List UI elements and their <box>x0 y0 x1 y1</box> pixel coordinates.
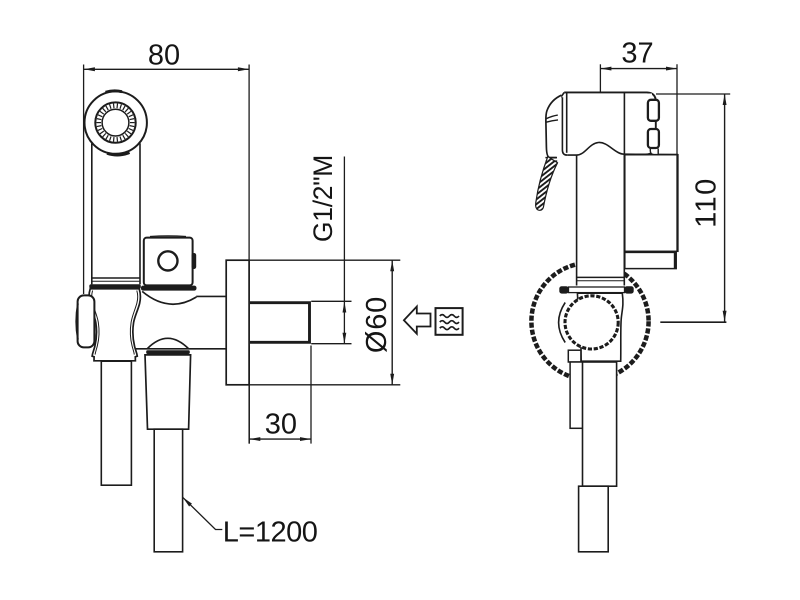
dim D60 extension line top <box>250 259 400 261</box>
handle joint ring line 2 <box>92 280 140 282</box>
handle tube front left edge <box>91 144 93 285</box>
holder bracket top edge highlight <box>150 235 186 238</box>
handle joint ring line 1 <box>92 277 140 279</box>
holder bracket hole <box>158 251 177 270</box>
hose upper tube side <box>583 362 617 486</box>
dim 110 top arrow <box>723 94 727 105</box>
wall plate edge view <box>226 260 249 385</box>
head side underside wave <box>567 142 678 155</box>
handle tube side right edge <box>623 154 625 285</box>
clamp left blob <box>559 286 568 293</box>
dim 37 left arrow <box>600 67 611 71</box>
head side back slot upper <box>648 100 659 121</box>
strip notch upper <box>568 350 581 362</box>
nozzle inner line 2 <box>546 120 558 122</box>
dim 80 left extension line <box>83 65 85 295</box>
dim D60 extension line bottom <box>250 384 400 386</box>
water inlet square symbol <box>436 308 463 335</box>
water inlet wave 2 <box>440 321 459 324</box>
dim 110 bottom extension line <box>660 321 726 323</box>
handle joint ring side 1 <box>577 276 625 278</box>
hose lower tube side <box>579 486 609 552</box>
handle joint ring side 2 <box>577 280 625 282</box>
dim G1/2 leader vertical line <box>343 157 345 344</box>
knob circle side (hatched rim) <box>565 296 618 349</box>
svg-text:G1/2"M: G1/2"M <box>308 155 338 242</box>
dim G1/2 extension line top <box>311 300 351 302</box>
dim 80 right arrow <box>238 67 249 71</box>
hose dome arc <box>147 338 188 349</box>
valve body front <box>89 289 141 361</box>
dim 110 dimension line <box>724 94 726 322</box>
holder bracket square <box>144 238 193 286</box>
threaded outlet pipe G1/2 <box>250 303 310 343</box>
sprayer head front: top shade arc <box>106 91 123 92</box>
dim 30 extension line right <box>310 346 312 444</box>
valve side knob tab <box>78 295 95 347</box>
dim 80 right extension line (wall face line) <box>248 65 250 444</box>
trigger lever (striped) <box>536 157 558 211</box>
sprayer head front: teeth ticks <box>96 104 134 142</box>
head side body fill <box>564 94 652 152</box>
dim 37 dimension line <box>600 68 677 70</box>
dim 37 right arrow <box>666 67 677 71</box>
dim D60 bottom arrow <box>390 374 394 385</box>
head side face cap chamfer <box>561 93 564 98</box>
dim 30 dimension line <box>249 438 311 440</box>
dim 30 extension line left <box>248 346 250 444</box>
dim G1/2 up arrow <box>343 302 347 313</box>
head side face cap left line <box>562 97 567 155</box>
holder arm side <box>625 252 676 268</box>
dim 110 bottom arrow <box>723 311 727 322</box>
hose length leader line <box>183 497 223 529</box>
clamp band side <box>569 287 625 293</box>
holder bracket bottom thick bar <box>141 286 197 291</box>
svg-text:Ø60: Ø60 <box>361 296 393 353</box>
outlet pipe bottom line <box>135 348 226 350</box>
valve outlet shoulder arc <box>142 291 196 304</box>
dim D60 dimension line <box>391 260 393 385</box>
head side small hook <box>650 149 658 155</box>
water inlet arrow symbol <box>404 307 431 334</box>
dim 80 left arrow <box>84 67 95 71</box>
nozzle bottom line 1 <box>545 157 557 159</box>
dim 30 left arrow <box>249 437 260 441</box>
clamp right blob <box>625 286 634 293</box>
head side back slot lower <box>648 129 659 148</box>
wall plate circle (hatched rim) <box>531 263 648 380</box>
holder arm right thick edge <box>674 253 677 269</box>
nozzle inner line 1 <box>546 115 558 119</box>
outlet pipe top line <box>196 295 226 297</box>
water inlet wave 3 <box>440 327 459 330</box>
hose nut thick bar <box>146 350 190 354</box>
valve body front inner line left <box>92 291 99 355</box>
hose tube front <box>154 429 182 552</box>
svg-text:37: 37 <box>621 38 653 70</box>
svg-text:80: 80 <box>148 40 180 72</box>
hose length leader arrow <box>183 497 192 506</box>
holder bracket right slot <box>192 253 197 269</box>
svg-text:30: 30 <box>265 409 297 441</box>
head side cap division line <box>623 93 625 155</box>
sprayer head front: inner circle <box>102 109 129 136</box>
nozzle outline <box>546 95 562 157</box>
dim 110 top extension line <box>656 93 730 95</box>
valve side knob tab lip arc <box>76 304 78 340</box>
valve body side <box>577 293 623 361</box>
svg-text:110: 110 <box>691 177 723 227</box>
head side face cap right line <box>566 93 568 153</box>
dim D60 top arrow <box>390 260 394 271</box>
handle tube side left edge <box>576 155 578 285</box>
dim 37 left extension line <box>599 64 601 91</box>
holder plate side <box>625 155 678 252</box>
head side body top edge <box>564 92 656 154</box>
dim 37 right extension line <box>676 64 678 251</box>
nozzle bottom line 2 <box>546 160 558 162</box>
knob left crescent <box>559 303 566 343</box>
dim 30 right arrow <box>300 437 311 441</box>
dim 80 dimension line <box>84 68 249 70</box>
handle tube front right edge <box>139 143 141 284</box>
sprayer head front: toothed ring outer <box>95 102 135 142</box>
sprayer head front: outer circle <box>85 91 147 153</box>
hose cone <box>145 355 191 429</box>
svg-text:L=1200: L=1200 <box>223 516 318 548</box>
sprayer head front: bottom shade arc <box>107 153 130 156</box>
handle tube side fill <box>577 155 625 286</box>
valve body front inner line right <box>130 291 137 355</box>
valve lower tube <box>101 361 131 485</box>
dim G1/2 down arrow <box>343 333 347 344</box>
dim G1/2 extension line bottom <box>311 343 351 345</box>
water inlet wave 1 <box>440 315 459 318</box>
strip lower <box>570 362 583 428</box>
handle clamp thick bar <box>89 284 141 289</box>
